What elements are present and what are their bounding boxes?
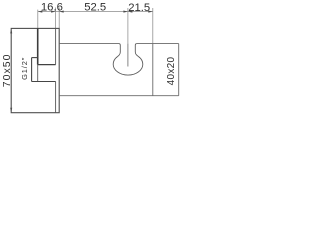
extension line hole centre x=127.9 [127,8,129,44]
keyhole slot walls [116,44,140,58]
svg-text:21.5: 21.5 [128,2,150,14]
extension line x=59.2 [58,8,60,29]
svg-text:16.6: 16.6 [41,2,63,14]
keyhole hole ellipse [113,53,143,75]
inner vertical x=55.6 lower [55,82,57,113]
extension line left x=37.8 [37,10,39,29]
holder arm top edge left part [59,44,179,96]
arm bottom edge [59,95,179,97]
divider lower thin [37,65,39,82]
70 height arrows on left edge [10,29,12,112]
inner vertical x=55.6 upper [55,28,57,64]
body step horizontal y=64.6 [38,64,56,66]
extension line right x=152.8 [152,8,154,44]
svg-text:70x50: 70x50 [1,54,13,88]
centre line into hole [127,44,129,67]
svg-text:52.5: 52.5 [84,2,106,14]
right end edge x=178.7 [178,44,180,96]
dimension arrows [38,11,153,13]
divider x=37.7 thick [37,28,39,64]
arm/end divider x=152.8 [152,44,154,96]
wall plate outer rect [11,28,59,112]
G1/2 stub [32,58,56,82]
erase ellipse top opening [115,48,141,58]
svg-text:40x20: 40x20 [166,56,177,85]
dimension line top chained [38,8,153,44]
svg-text:G1/2″: G1/2″ [20,57,29,80]
extension line x=55.6 [55,8,57,29]
